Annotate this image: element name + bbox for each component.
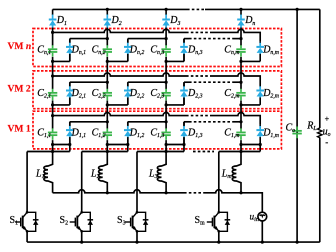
transistor Sm (IGBT with antiparallel diode) xyxy=(214,212,218,217)
wire: D2,1 cathode link to col2 xyxy=(70,81,108,83)
wire: D1,3 cathode link ellipsis xyxy=(189,121,233,123)
wire: D2,3 cathode link to col m xyxy=(233,81,241,83)
wire: row 1 cell 2 bottom link xyxy=(107,144,128,146)
wire: Dn,3 cathode link to col m xyxy=(233,38,241,40)
wire: D2,3 cathode link ellipsis xyxy=(189,81,233,83)
wire: Sm lower lead xyxy=(218,231,220,242)
junction: row 2 col 2 bottom xyxy=(106,103,109,106)
diode D1,3 xyxy=(183,122,185,127)
inductor L2 xyxy=(99,152,108,193)
diode D1 xyxy=(52,9,54,15)
transistor S2 (IGBT with antiparallel diode) xyxy=(77,212,81,217)
junction: stub / VM1 bottom link xyxy=(259,143,262,146)
wire: row 2 cell 1 bottom link xyxy=(53,104,70,106)
junction: row n col3 upper xyxy=(165,37,168,40)
VM cell boundary box VM n xyxy=(33,29,281,67)
wire: S1 lower lead xyxy=(26,231,28,242)
wire: input rail (left) xyxy=(53,190,184,193)
wire: S2 upper lead xyxy=(81,152,83,213)
wire: load rail (right edge) xyxy=(319,9,321,242)
capacitor Co xyxy=(296,126,298,130)
capacitor C2,m xyxy=(240,88,242,92)
diode D2,m xyxy=(259,85,261,87)
wire: row 2 top wire (col1 to ellipsis) xyxy=(53,73,186,76)
wire: S2 lower lead xyxy=(81,231,83,242)
junction: row 2 col m bottom xyxy=(239,103,242,106)
junction: input rail / Lm xyxy=(239,191,242,194)
junction: row n col 1 bottom xyxy=(51,60,54,63)
wire: phase 3 switch-node rail xyxy=(137,151,184,153)
wire: S3 lower lead xyxy=(136,231,138,242)
capacitor C2,1 xyxy=(52,88,54,92)
diode D1,2 xyxy=(127,122,129,127)
capacitor Cn,1 xyxy=(52,45,54,49)
junction: row n col m upper xyxy=(239,37,242,40)
wire: input rail ellipsis xyxy=(184,192,205,194)
wire: column 1 vertical xyxy=(52,29,54,152)
diode D1,1 xyxy=(69,122,71,127)
svg-text:VM 1: VM 1 xyxy=(8,123,31,134)
inductor Lm xyxy=(232,152,241,193)
junction: top rail / D2 xyxy=(106,8,109,11)
junction: bus / Co rail xyxy=(296,241,299,244)
diode Dn,3 xyxy=(183,39,185,44)
junction: top rail / D3 xyxy=(165,8,168,11)
wire: phase 2 switch-node rail xyxy=(82,151,128,153)
diode Dn,m xyxy=(259,41,261,43)
wire: D1,2 cathode link to col3 xyxy=(128,121,166,123)
wire: D2,2 cathode link to col3 xyxy=(128,81,166,83)
VM cell boundary box VM 2 xyxy=(33,71,281,109)
capacitor C1,1 xyxy=(52,128,54,132)
wire: row n top wire ellipsis xyxy=(186,31,211,33)
capacitor C2,2 xyxy=(106,88,108,92)
junction: row 2 col3 upper xyxy=(165,81,168,84)
capacitor Cn,m xyxy=(240,45,242,49)
inductor L3 xyxy=(157,152,166,193)
junction: row 1 col2 upper xyxy=(106,120,109,123)
wire: output capacitor rail xyxy=(296,9,298,242)
capacitor C1,m xyxy=(240,128,242,132)
wire: Sm upper lead xyxy=(218,152,220,213)
wire: D1,3 cathode link (solid) xyxy=(184,121,189,123)
transistor S1 (IGBT with antiparallel diode) xyxy=(23,212,27,217)
wire: row 2 top wire (to D2,m stub) xyxy=(211,73,260,85)
junction: row 2 top wire at col1 xyxy=(51,74,54,77)
wire: top output rail (solid-right) xyxy=(205,8,320,10)
junction: stub / VM1 bottom link xyxy=(182,143,185,146)
junction: input rail / L2 xyxy=(106,191,109,194)
wire: row n cell 2 bottom link xyxy=(107,60,128,62)
wire: u_in to ground bus xyxy=(261,221,263,242)
wire: ground bus xyxy=(27,241,320,243)
wire: row n cell 1 bottom link xyxy=(53,60,70,62)
wire: row 1 cell m bottom link xyxy=(241,144,260,146)
wire: row 1 cell 3 bottom link xyxy=(166,144,184,146)
wire: D2,3 cathode link (solid) xyxy=(184,81,189,83)
junction: rail 2 / column xyxy=(106,150,109,153)
wire: row n cell m bottom link xyxy=(241,60,260,62)
wire: column 2 vertical xyxy=(106,29,108,152)
junction: stub / VM1 bottom link xyxy=(126,143,129,146)
junction: row 2 col2 upper xyxy=(106,81,109,84)
capacitor Cn,3 xyxy=(165,45,167,49)
wire: S3 upper lead xyxy=(136,152,138,213)
diode D1,m xyxy=(259,125,261,127)
wire: phase 4 switch-node rail xyxy=(219,151,260,153)
junction: bus / S3 xyxy=(135,241,138,244)
wire: top output rail (solid-left) xyxy=(53,8,187,10)
diode Dn,2 xyxy=(127,39,129,44)
junction: row n top wire at col1 xyxy=(51,31,54,34)
junction: row 1 col3 upper xyxy=(165,120,168,123)
inductor L1 xyxy=(44,152,53,193)
wire: row 1 top wire (col1 to ellipsis) xyxy=(53,113,186,116)
wire: D1,3 cathode link to col m xyxy=(233,121,241,123)
junction: bus / u_in xyxy=(261,241,264,244)
wire: D2,3 top corner xyxy=(183,82,185,105)
wire: Dn,3 cathode link ellipsis xyxy=(189,38,233,40)
wire: Dn,2 top corner xyxy=(127,39,129,62)
wire: D1,2 top corner xyxy=(127,122,129,145)
junction: row 1 col m bottom xyxy=(239,143,242,146)
svg-text:VM n: VM n xyxy=(8,41,32,52)
junction: row n col2 upper xyxy=(106,37,109,40)
junction: row n col 2 bottom xyxy=(106,60,109,63)
wire: Dn,1 top corner xyxy=(69,39,71,62)
junction: row n col m bottom xyxy=(239,60,242,63)
wire: row 1 top wire (to D1,m stub) xyxy=(211,112,260,124)
junction: row n col 3 bottom xyxy=(165,60,168,63)
wire: rail ellipsis xyxy=(193,151,214,153)
wire: row n cell 3 bottom link xyxy=(166,60,184,62)
svg-text:VM 2: VM 2 xyxy=(8,83,31,94)
transistor S3 (IGBT with antiparallel diode) xyxy=(133,212,137,217)
capacitor C2,3 xyxy=(165,88,167,92)
junction: row 1 col 1 bottom xyxy=(51,143,54,146)
capacitor C1,2 xyxy=(106,128,108,132)
source u_in xyxy=(258,212,267,221)
resistor RL xyxy=(317,128,323,137)
junction: row 2 col 1 bottom xyxy=(51,103,54,106)
junction: bus / Sm xyxy=(217,241,220,244)
diode D2,1 xyxy=(69,82,71,87)
wire: D1,3 top corner xyxy=(183,122,185,145)
diode D2 xyxy=(106,9,108,15)
wire: Dn,3 top corner xyxy=(183,39,185,62)
junction: bus / S2 xyxy=(80,241,83,244)
junction: rail 1 / column xyxy=(51,150,54,153)
wire: row n top wire (col1 to ellipsis) xyxy=(53,29,186,32)
wire: D1,x stub down to rail xyxy=(69,145,71,152)
VM cell boundary box VM 1 xyxy=(33,111,281,149)
junction: row 2 col m upper xyxy=(239,81,242,84)
svg-text:+: + xyxy=(325,115,330,124)
junction: top rail / Co rail xyxy=(296,8,299,11)
diode Dn,1 xyxy=(69,39,71,44)
junction: row 1 col 2 bottom xyxy=(106,143,109,146)
wire: Dn,3 cathode link (solid) xyxy=(184,38,189,40)
wire: Dn,1 cathode link to col2 xyxy=(70,38,108,40)
wire: row 2 cell 3 bottom link xyxy=(166,104,184,106)
wire: row 1 top wire ellipsis xyxy=(186,115,211,117)
wire: phase 1 switch-node rail xyxy=(27,151,70,153)
capacitor Cn,2 xyxy=(106,45,108,49)
wire: row 2 cell 2 bottom link xyxy=(107,104,128,106)
junction: row 1 top wire at col1 xyxy=(51,114,54,117)
diode D2,2 xyxy=(127,82,129,87)
wire: input rail (right) to source xyxy=(205,190,262,212)
wire: S1 upper lead xyxy=(26,152,28,213)
wire: D2,1 top corner xyxy=(69,82,71,105)
wire: column 4 vertical xyxy=(240,29,242,152)
wire: row 1 cell 1 bottom link xyxy=(53,144,70,146)
diode D3 xyxy=(165,9,167,15)
wire: D1,x stub down to rail xyxy=(259,145,261,152)
junction: row 1 col m upper xyxy=(239,120,242,123)
wire: row 2 top wire ellipsis xyxy=(186,75,211,77)
junction: stub / VM1 bottom link xyxy=(68,143,71,146)
junction: rail 3 / column xyxy=(165,150,168,153)
wire: D1,x stub down to rail xyxy=(183,145,185,152)
junction: top rail / Dn xyxy=(239,8,242,11)
wire: D1,1 top corner xyxy=(69,122,71,145)
wire: Dn,2 cathode link to col3 xyxy=(128,38,166,40)
wire: D2,2 top corner xyxy=(127,82,129,105)
diode D2,3 xyxy=(183,82,185,87)
junction: row 2 col 3 bottom xyxy=(165,103,168,106)
wire: row 2 cell m bottom link xyxy=(241,104,260,106)
diode Dn xyxy=(240,9,242,15)
wire: D1,x stub down to rail xyxy=(127,145,129,152)
wire: row n top wire (to Dn,m stub) xyxy=(211,29,260,41)
wire: top output rail ellipsis xyxy=(187,8,205,10)
wire: column 3 vertical xyxy=(165,29,167,152)
junction: row 1 col 3 bottom xyxy=(165,143,168,146)
capacitor C1,3 xyxy=(165,128,167,132)
junction: input rail / L3 xyxy=(165,191,168,194)
wire: D1,1 cathode link to col2 xyxy=(70,121,108,123)
junction: rail 4 / column xyxy=(239,150,242,153)
svg-text:-: - xyxy=(325,137,328,147)
